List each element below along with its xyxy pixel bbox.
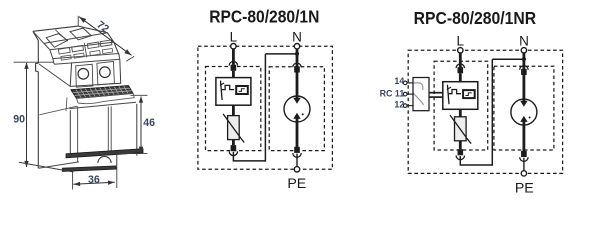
svg-text:90: 90: [13, 113, 25, 125]
svg-text:RPC-80/280/1NR: RPC-80/280/1NR: [414, 8, 537, 28]
svg-text:14: 14: [394, 76, 404, 86]
svg-text:N: N: [519, 33, 529, 48]
svg-text:RC 11: RC 11: [380, 88, 405, 98]
svg-text:L: L: [457, 33, 465, 48]
svg-text:46: 46: [143, 117, 155, 129]
svg-text:PE: PE: [287, 176, 306, 192]
svg-text:36: 36: [88, 174, 100, 186]
svg-text:L: L: [230, 29, 238, 44]
svg-text:RPC-80/280/1N: RPC-80/280/1N: [209, 7, 319, 27]
svg-text:PE: PE: [515, 180, 534, 196]
svg-text:N: N: [292, 29, 302, 44]
svg-text:12: 12: [394, 100, 404, 110]
